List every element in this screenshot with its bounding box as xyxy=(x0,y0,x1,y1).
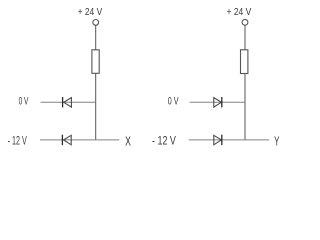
svg-text:X: X xyxy=(125,134,131,149)
svg-text:0 V: 0 V xyxy=(168,96,179,108)
svg-text:- 12 V: - 12 V xyxy=(8,134,28,148)
svg-text:0 V: 0 V xyxy=(19,96,29,108)
svg-text:Y: Y xyxy=(274,133,280,148)
svg-text:- 12 V: - 12 V xyxy=(152,134,177,148)
svg-text:+ 24 V: + 24 V xyxy=(227,7,252,18)
svg-text:+ 24 V: + 24 V xyxy=(78,7,103,18)
